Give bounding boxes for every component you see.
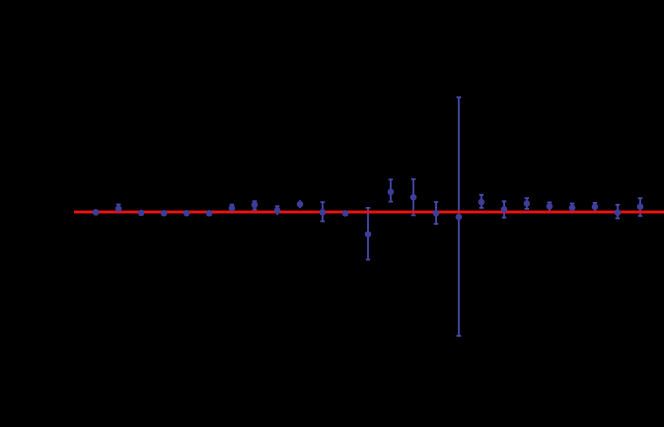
bar 19 xyxy=(502,201,506,217)
bar 12 xyxy=(344,211,346,217)
marker 16 xyxy=(433,210,440,217)
bar 8 xyxy=(252,201,256,209)
marker 3 xyxy=(138,210,145,217)
bar 5 xyxy=(186,211,188,217)
bar 24 xyxy=(615,205,619,219)
bar 9 xyxy=(275,206,279,215)
markers xyxy=(93,189,644,238)
bar 4 xyxy=(163,211,165,217)
bar 11 xyxy=(320,202,324,221)
marker 11 xyxy=(319,209,326,216)
bar 17 (big) xyxy=(457,97,462,335)
marker 12 xyxy=(342,210,349,217)
marker 9 xyxy=(274,207,281,214)
marker 18 xyxy=(478,199,485,206)
bar 6 xyxy=(208,211,210,217)
marker 13 xyxy=(365,231,372,238)
bar 18 xyxy=(479,195,483,208)
bar 1 xyxy=(95,210,97,216)
marker 23 xyxy=(592,204,599,211)
marker 8 xyxy=(251,202,258,209)
marker 14 xyxy=(387,189,394,196)
marker 25 xyxy=(637,203,644,210)
red reference line xyxy=(74,211,664,214)
bar 22 xyxy=(570,204,574,213)
bar 15 xyxy=(411,179,415,215)
bar 21 xyxy=(547,202,551,211)
marker 22 xyxy=(569,205,576,212)
bar 16 xyxy=(434,202,438,224)
marker 19 xyxy=(501,206,508,213)
marker 6 xyxy=(206,210,213,217)
bar 13 xyxy=(366,208,370,260)
bar 2 xyxy=(116,205,120,213)
error bars xyxy=(96,97,643,335)
bar 23 xyxy=(593,203,597,212)
marker 24 xyxy=(614,209,621,216)
marker 5 xyxy=(183,210,190,217)
marker 2 xyxy=(115,205,122,212)
marker 20 xyxy=(524,200,531,207)
marker 10 xyxy=(297,201,304,208)
bar 25 xyxy=(638,198,642,216)
marker 4 xyxy=(161,210,168,217)
bar 14 xyxy=(389,179,393,201)
marker 7 xyxy=(229,205,236,212)
bar 20 xyxy=(525,198,529,209)
bar 3 xyxy=(140,211,142,216)
bar 10 xyxy=(299,200,301,208)
marker 17 xyxy=(456,214,463,221)
bar 7 xyxy=(230,205,234,213)
marker 21 xyxy=(546,203,553,210)
marker 1 xyxy=(93,209,100,216)
marker 15 xyxy=(410,194,417,201)
